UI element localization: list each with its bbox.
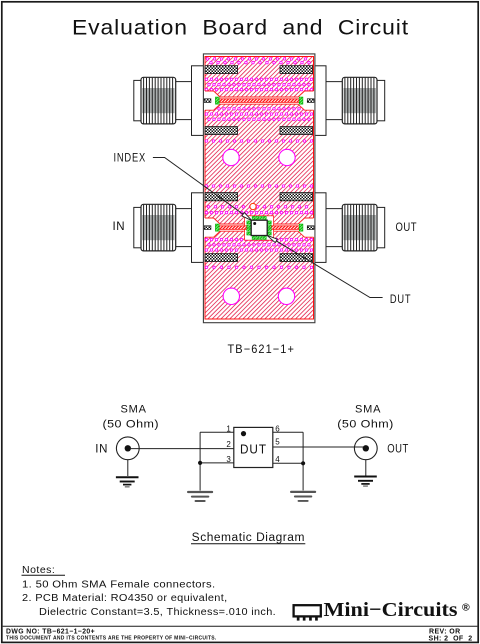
svg-text:OUT: OUT (396, 222, 418, 234)
wire right ground bus (302, 432, 304, 490)
mounting hole bottom-left (223, 288, 239, 304)
DUT pin 1 dot (253, 222, 256, 225)
svg-text:IN: IN (113, 221, 126, 233)
SMA connector J3 (bottom-left, IN) (134, 193, 204, 263)
via holes (205, 58, 313, 269)
SMA connector J4 (bottom-right, OUT) (314, 193, 385, 263)
trace solder pad row2 right (299, 224, 303, 231)
junction node left (198, 461, 202, 465)
ground pad row B left (205, 127, 238, 135)
svg-text:4: 4 (275, 455, 280, 464)
svg-text:5: 5 (275, 438, 280, 447)
svg-text:Evaluation Board and Circui: Evaluation Board and Circuit (72, 17, 409, 40)
ground symbol left bus (188, 491, 212, 493)
connector pin row2 left (204, 226, 211, 230)
SMA connector J1 (top-left) (134, 66, 204, 136)
svg-text:2: 2 (226, 440, 231, 449)
DUT keepout (245, 216, 274, 240)
DUT right pad column (267, 221, 271, 235)
DUT top pad row (252, 216, 266, 220)
copper pullback channel row 1 (204, 91, 314, 110)
ground symbol at IN (116, 476, 139, 478)
svg-text:3: 3 (226, 455, 231, 464)
svg-text:6: 6 (275, 425, 280, 434)
ground symbol right bus (291, 491, 315, 493)
wire IN to DUT pin 2 (131, 448, 234, 450)
svg-text:INDEX: INDEX (114, 153, 147, 165)
wire pin4 stub (273, 462, 303, 464)
DUT left pad column (247, 221, 251, 235)
connector pin row2 right (307, 226, 314, 230)
INDEX leader arrowhead (242, 213, 252, 221)
wire OUT connector to ground (365, 460, 367, 476)
svg-text:OUT: OUT (387, 443, 409, 455)
svg-text:TB−621−1+: TB−621−1+ (228, 342, 296, 356)
ground pad row B right (280, 127, 313, 135)
connector J_OUT symbol (354, 437, 377, 460)
mounting hole top-right (279, 149, 295, 165)
mounting hole bottom-right (278, 288, 294, 304)
svg-text:REV: OR: REV: OR (429, 628, 461, 635)
microstrip trace TL1 (row 1) (217, 99, 301, 103)
ground symbol at OUT (354, 476, 377, 478)
svg-text:®: ® (462, 602, 470, 614)
svg-text:Dielectric Constant=3.5, Thick: Dielectric Constant=3.5, Thickness=.010 … (39, 607, 276, 618)
connector pin row1 left (204, 99, 211, 103)
DUT U1 box (234, 427, 273, 467)
junction node right (301, 461, 305, 465)
DUT bottom pad row (252, 236, 266, 240)
trace solder pad row2 left (215, 224, 219, 231)
svg-text:DWG NO: TB−621−1−20+: DWG NO: TB−621−1−20+ (6, 628, 95, 635)
ground pad row A right (280, 66, 313, 74)
wire pin6 stub (273, 431, 303, 433)
wire DUT pin 5 to OUT (273, 446, 363, 448)
svg-text:SH: 2 OF 2: SH: 2 OF 2 (429, 636, 473, 643)
ground pad row D right (280, 254, 313, 262)
PCB board outline (203, 54, 315, 323)
Mini-Circuits logo package icon (294, 605, 321, 620)
ground pad row C right (280, 193, 313, 201)
microstrip trace TL2 right segment (row 2) (271, 226, 301, 230)
svg-text:Mini−Circuits: Mini−Circuits (324, 599, 458, 621)
DUT pin1 dot (241, 431, 246, 436)
wire pin1 stub (200, 431, 234, 433)
svg-text:1. 50 Ohm SMA Female connector: 1. 50 Ohm SMA Female connectors. (22, 579, 216, 590)
svg-text:SMA: SMA (121, 404, 147, 416)
connector J_IN symbol (116, 437, 139, 460)
trace solder pad row1 right (299, 97, 303, 104)
svg-text:DUT: DUT (390, 294, 412, 306)
wire pin3 stub (200, 462, 234, 464)
caption underline (191, 543, 305, 545)
svg-text:SMA: SMA (355, 404, 381, 416)
DUT leader wire (270, 237, 383, 298)
svg-text:1: 1 (226, 425, 231, 434)
microstrip trace TL2 left segment (row 2) (217, 226, 247, 230)
ground pad row C left (205, 193, 238, 201)
SMA connector J2 (top-right) (314, 66, 385, 136)
wire left ground bus (199, 432, 201, 490)
ground pad row D left (205, 254, 238, 262)
index hole (250, 203, 256, 209)
connector pin row1 right (307, 99, 314, 103)
svg-text:DUT: DUT (240, 443, 267, 457)
copper pullback channel row 2 (204, 218, 314, 237)
trace solder pad row1 left (215, 97, 219, 104)
DUT package body (251, 220, 267, 235)
DUT leader arrowhead (267, 235, 278, 242)
svg-text:Schematic Diagram: Schematic Diagram (192, 532, 305, 544)
INDEX leader wire (153, 158, 249, 219)
mounting hole top-left (223, 149, 239, 165)
svg-text:2. PCB Material: RO4350 or equ: 2. PCB Material: RO4350 or equivalent, (22, 593, 228, 604)
svg-text:(50 Ohm): (50 Ohm) (103, 419, 160, 431)
ground pad row A left (205, 66, 238, 74)
PCB copper pour (hatched) (205, 57, 314, 320)
Notes underline (22, 574, 66, 576)
svg-text:Notes:: Notes: (22, 564, 55, 576)
svg-text:THIS DOCUMENT AND ITS CONTENTS: THIS DOCUMENT AND ITS CONTENTS ARE THE P… (6, 636, 217, 642)
svg-text:(50 Ohm): (50 Ohm) (337, 419, 394, 431)
svg-text:IN: IN (95, 443, 108, 455)
wire IN connector to ground (127, 460, 129, 476)
title block divider (3, 625, 478, 627)
